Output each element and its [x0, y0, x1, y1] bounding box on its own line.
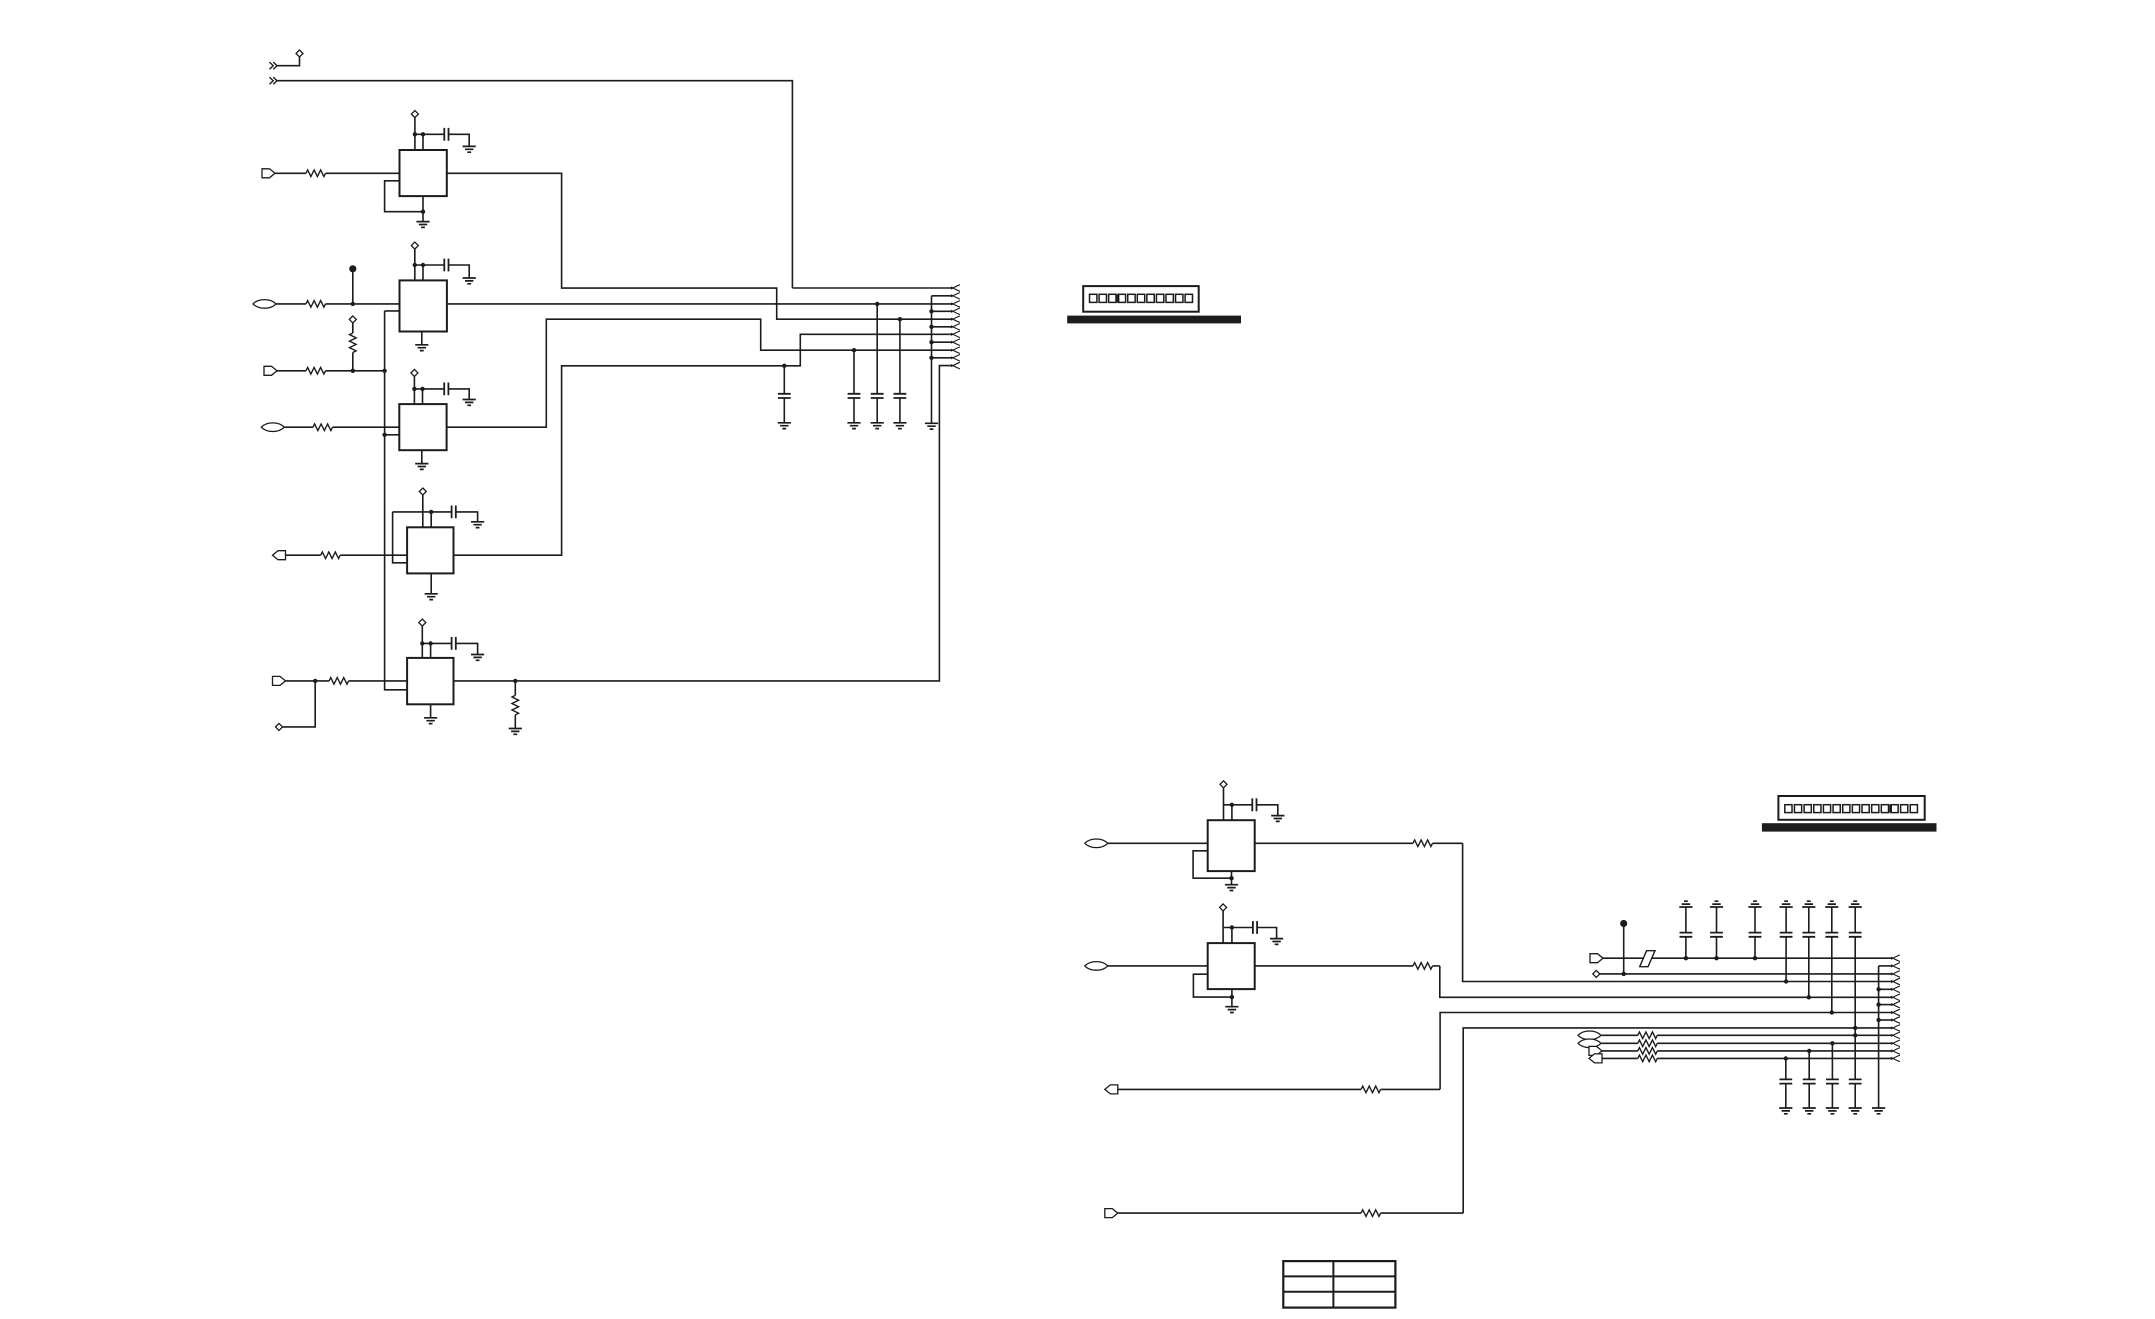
input wire of U7 — [1108, 965, 1208, 967]
junction dots on U3 supply — [412, 387, 425, 404]
U7 bottom pin to ground — [1225, 989, 1238, 1012]
filter capacitor C8 — [871, 302, 884, 429]
wire U3 output to left connector pin9 — [447, 319, 953, 427]
junction dots on U2 supply — [413, 263, 426, 281]
connector J1 pin 2 — [932, 293, 960, 300]
decoupling capacitor C10 of U6 — [1224, 798, 1285, 821]
input resistor R1 — [275, 170, 400, 177]
input connector of U4 — [273, 551, 286, 560]
power diamond of right pin3 line — [1593, 970, 1600, 977]
black redaction bar right — [1762, 823, 1937, 831]
series resistor R13 — [1601, 1032, 1893, 1039]
decoupling capacitor C4 of U4 — [393, 506, 485, 528]
connector J2 pin 7 — [1879, 1001, 1900, 1008]
feedback loop wire of U6 — [1193, 851, 1234, 881]
black redaction bar left — [1067, 316, 1241, 324]
IC block U3 — [399, 404, 446, 450]
series resistor R14 — [1601, 1040, 1893, 1047]
decoupling capacitor C1 of U1 — [415, 128, 476, 152]
wire U6 output to right connector pin4 — [1463, 843, 1893, 981]
U5 bottom pin to ground — [424, 704, 437, 723]
series resistor R16 — [1602, 1055, 1893, 1062]
boxed part-number text (redacted glyph boxes) — [1083, 286, 1199, 312]
connector J1 pin 7 arrow — [951, 331, 960, 338]
pullup capacitor C16 with inverted ground — [1802, 901, 1815, 999]
wire pentagon to right connector pin1 — [1603, 957, 1893, 959]
input connector 6 — [1578, 1039, 1601, 1048]
connector J2 pin 11 arrow — [1891, 1032, 1900, 1039]
input connector of U2 — [253, 300, 276, 309]
wire diamond to right connector pin3 — [1600, 973, 1893, 975]
series resistor R9 on U6 output — [1255, 840, 1463, 847]
feedback loop wire of U1 — [385, 181, 423, 212]
power diamond of U7 — [1220, 904, 1227, 943]
pullup capacitor C17 with inverted ground — [1825, 901, 1838, 1015]
U2 bottom pin to ground — [415, 332, 428, 351]
power diamond of U1 — [411, 111, 418, 150]
connector J2 pin 13 arrow — [1891, 1048, 1900, 1055]
series resistor R10 on U7 output — [1255, 963, 1440, 970]
decoupling capacitor C3 of U3 — [414, 383, 475, 406]
second input resistor R4 — [277, 368, 387, 375]
connector J1 pin 6 — [932, 324, 960, 331]
series resistor R15 — [1602, 1048, 1893, 1055]
pullup capacitor C18 chain to bottom cap — [1849, 901, 1862, 1114]
pulldown resistor R8 on U5 output — [509, 679, 522, 735]
U1 bottom pin to ground — [416, 196, 429, 227]
filter capacitor C7 — [847, 348, 860, 429]
decoupling capacitor C2 of U2 — [415, 259, 476, 284]
IC block U1 — [400, 150, 447, 196]
pullup capacitor C13 with inverted ground — [1710, 901, 1723, 960]
power diamond of U3 — [411, 369, 418, 404]
input resistor R5 — [284, 424, 399, 431]
wire U1 output to left connector pin5 — [447, 173, 953, 319]
wire U4 output to left connector pin7 — [454, 334, 953, 555]
power diamond of U6 — [1220, 781, 1227, 820]
junction dot on U4 supply — [429, 510, 433, 528]
input connector of U7 — [1085, 962, 1108, 971]
input connector 3 — [1105, 1085, 1118, 1094]
connector J1 pin 3 arrow — [951, 301, 960, 308]
connector J2 pin 12 arrow — [1891, 1040, 1900, 1047]
input connector of U6 — [1085, 839, 1108, 848]
wire U2 output to left connector pin3 — [447, 303, 953, 305]
junction dot on U6 supply — [1230, 803, 1234, 821]
connector J2 pin 8 arrow — [1891, 1009, 1900, 1016]
feedback loop wire of U4 — [393, 512, 408, 563]
connector J2 pin 2 — [1879, 963, 1900, 970]
wire U7 output to right connector pin6 — [1440, 966, 1893, 997]
IC block U6 — [1208, 820, 1255, 871]
connector J2 pin 3 arrow — [1891, 971, 1900, 978]
junction dots on U1 supply — [413, 132, 426, 150]
IC block U4 — [407, 527, 453, 573]
pullup capacitor C15 with inverted ground — [1780, 901, 1793, 984]
revision table — [1283, 1261, 1395, 1308]
wire U5 output to left connector pin11 — [454, 366, 953, 681]
filter capacitor C6 — [778, 364, 791, 429]
pull resistor R3 vertical — [350, 323, 357, 373]
IC block U2 — [400, 280, 447, 331]
connector J1 pin 5 arrow — [951, 316, 960, 323]
wire input3 to right connector pin8 — [1440, 1013, 1892, 1090]
input resistor R2 — [276, 301, 400, 308]
test point dot TP2 — [1620, 920, 1627, 976]
filter capacitor C21 — [1826, 1041, 1839, 1114]
junction dots on U5 supply — [420, 641, 433, 658]
net stub connector >>2 — [270, 77, 278, 84]
U4 bottom pin to ground — [425, 573, 438, 599]
test point dot TP1 — [349, 265, 356, 306]
power diamond of U4 — [419, 488, 426, 527]
IC block U5 — [407, 658, 453, 704]
feedback loop wire of U7 — [1193, 974, 1234, 999]
open jumper symbol — [1640, 951, 1655, 967]
connector J1 pin 11 arrow — [951, 362, 960, 369]
connector J1 pin 10 — [932, 355, 960, 362]
input connector 5 — [1578, 1031, 1601, 1040]
input connector 4 — [1105, 1209, 1118, 1218]
vertical bus wire joining U2 U3 U5 second pins — [382, 311, 407, 690]
connector J1 pin 8 — [932, 339, 960, 346]
connector J2 pin 14 arrow — [1891, 1055, 1900, 1062]
series resistor R12 on input 4 — [1118, 1210, 1463, 1217]
wire from >>2 to left connector pin1 — [277, 81, 953, 288]
input connector of U3 — [261, 423, 284, 432]
power diamond above R3 — [349, 316, 356, 323]
input resistor R6 — [286, 552, 408, 559]
net stub connector of right pin1 line — [1590, 954, 1603, 963]
junction dot on U7 supply — [1230, 925, 1234, 943]
filter capacitor C19 — [1779, 1056, 1792, 1114]
connector J1 pin 9 arrow — [951, 347, 960, 354]
connector J1 pin 4 — [932, 308, 960, 315]
series resistor R11 on input 3 — [1118, 1086, 1440, 1093]
branch to power diamond at U5 input — [276, 679, 318, 731]
right connector ground bus wire — [1872, 966, 1885, 1114]
pullup capacitor C14 with inverted ground — [1748, 901, 1761, 960]
connector J2 pin 9 — [1879, 1017, 1900, 1024]
IC block U7 — [1208, 943, 1255, 989]
power diamond of U5 — [419, 619, 426, 658]
filter capacitor C20 — [1803, 1049, 1816, 1114]
U6 bottom pin to ground — [1225, 871, 1238, 890]
connector J2 pin 4 arrow — [1891, 978, 1900, 985]
second input connector of U2 — [264, 366, 277, 375]
boxed part-number text right (redacted glyph boxes) — [1778, 796, 1924, 820]
left connector ground bus wire — [925, 296, 938, 429]
power diamond of U2 — [411, 242, 418, 280]
connector J2 pin 6 arrow — [1891, 994, 1900, 1001]
connector J2 pin 1 arrow — [1891, 955, 1900, 962]
wire input4 to right connector pin10 — [1463, 1028, 1892, 1213]
filter capacitor C9 — [893, 317, 906, 429]
U3 bottom pin to ground — [415, 450, 428, 469]
input resistor R7 — [286, 678, 408, 685]
input wire of U6 — [1108, 842, 1208, 844]
input connector of U1 — [262, 169, 275, 178]
pullup capacitor C12 with inverted ground — [1679, 901, 1692, 960]
input connector of U5 — [273, 676, 286, 685]
connector J1 pin 1 arrow — [951, 285, 960, 292]
decoupling capacitor C11 of U7 — [1223, 921, 1283, 944]
input connector 7 — [1589, 1046, 1602, 1055]
connector J2 pin 5 — [1879, 986, 1900, 993]
decoupling capacitor C5 of U5 — [422, 637, 484, 660]
net stub connector >>1 with wire and power diamond — [270, 50, 304, 69]
connector J2 pin 10 arrow — [1891, 1025, 1900, 1032]
input connector 8 — [1589, 1054, 1602, 1063]
